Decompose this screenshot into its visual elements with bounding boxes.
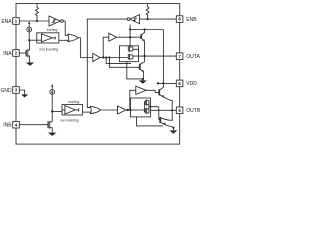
transistor Q5 (output B high side) [158, 89, 161, 95]
wire ENB horizontal [140, 18, 177, 20]
svg-text:INA: INA [3, 51, 12, 57]
wire U2 out [100, 57, 128, 59]
svg-text:inverting: inverting [68, 100, 79, 104]
wire select box B to gate [82, 111, 91, 113]
or-gate G1 (channel A) [68, 34, 78, 41]
wire INA horizontal [19, 52, 26, 54]
wire G2 out [101, 109, 118, 111]
svg-text:OUTA: OUTA [186, 54, 200, 60]
resistor R1 (ENA pull-up) [36, 4, 39, 22]
ground (GND pin) [21, 94, 28, 97]
wire select box A to gate [59, 39, 69, 41]
buffer U5 [117, 106, 126, 114]
pin OUTA [176, 53, 183, 60]
ground (stage A) [142, 79, 144, 80]
node OUTB [171, 109, 173, 111]
svg-text:GND: GND [0, 88, 12, 94]
node U2c [108, 56, 110, 58]
current source I2 [51, 86, 53, 89]
wire OUTB [151, 109, 177, 111]
pin VDD [176, 80, 183, 87]
pre-driver B gate rail [137, 101, 145, 112]
svg-text:inverting: inverting [47, 28, 58, 32]
wire I1 to Q1 drain [28, 32, 30, 50]
node pre-driver B entry [144, 109, 146, 111]
pre-driver mosfet B2 [145, 108, 149, 114]
buffer U2 [93, 53, 100, 61]
buffer in select box B [62, 106, 79, 114]
wire node A to select box [29, 39, 38, 41]
node U5b [129, 109, 131, 111]
wire INB horizontal [19, 124, 48, 126]
wire Q4 source [51, 128, 53, 133]
node VDD a [157, 82, 159, 84]
node pre-driver B out [150, 106, 152, 108]
buffer U3 [109, 33, 117, 41]
node A input [28, 39, 30, 41]
pre-driver box B [131, 98, 151, 117]
pre-driver mosfet A1 [128, 46, 138, 52]
pin GND [13, 87, 20, 94]
pre-driver box A [120, 46, 139, 62]
buffer in select box A [37, 34, 55, 42]
svg-text:OUTB: OUTB [186, 108, 200, 114]
ground (stage B) [169, 130, 177, 133]
wire I2 to Q4 drain [51, 94, 53, 122]
svg-text:ENA: ENA [1, 19, 12, 25]
buffer U6 [136, 86, 146, 94]
pre-driver mosfet A2 [128, 54, 133, 60]
vdd stub A into pre-driver [129, 25, 131, 46]
node rail A [129, 28, 131, 30]
IC boundary [16, 4, 180, 145]
svg-text:INB: INB [3, 123, 12, 129]
wire node B to select box [52, 111, 62, 113]
node U2b [105, 56, 107, 58]
transistor Q2 (output A high side) [140, 34, 143, 39]
node rail A2 [144, 28, 146, 30]
wire ENA horizontal [19, 20, 49, 22]
wire VDD [163, 82, 176, 84]
wire down to pre-driver A low rail [106, 58, 131, 64]
node ENB junction [147, 18, 149, 20]
wire GND pin [19, 90, 24, 94]
wire up to U3 [103, 37, 109, 57]
svg-text:VDD: VDD [186, 81, 197, 87]
wire Q1 source [28, 56, 30, 63]
node VDD b [162, 82, 164, 84]
vdd rail A [130, 30, 163, 84]
wire pre-driver A ground return [127, 62, 143, 79]
schmitt inverter U4 (ENB) [130, 15, 140, 24]
select box A [37, 33, 59, 43]
ground (INB stage) [48, 133, 56, 136]
wire down to Q3 gate [109, 58, 140, 68]
pin INB [13, 121, 20, 128]
wire U5 out [126, 109, 137, 111]
transistor Q6 (output B low side) [159, 117, 162, 123]
transistor Q1 (INA input nmos) [26, 49, 29, 58]
node B input [51, 110, 53, 112]
or-gate G2 (channel B) [90, 106, 100, 113]
transistor Q3 (output A low side) [138, 64, 141, 70]
ground (INA stage) [26, 63, 34, 66]
node U2a [102, 56, 104, 58]
select box B [62, 104, 82, 115]
schmitt inverter U1 (ENA) [49, 16, 61, 26]
pin INA [13, 50, 20, 57]
pin ENB [176, 16, 183, 23]
pin ENA [13, 18, 20, 25]
node Q6 emitter [172, 127, 174, 129]
current source I1 [28, 23, 30, 27]
node pre-driver A gate [129, 36, 131, 38]
wire pre-driver B ground return [137, 117, 164, 126]
wire U3 out to pre-driver A [116, 36, 141, 38]
wire U4 out to gate B [87, 19, 127, 107]
wire pre-driver B out [149, 103, 159, 111]
wire U1 out to gate A [63, 21, 68, 35]
svg-text:non inverting: non inverting [40, 47, 59, 51]
svg-text:non inverting: non inverting [60, 118, 79, 122]
pre-driver mosfet B1 [145, 100, 149, 106]
node ENA junction [36, 20, 38, 22]
wire G1 out [78, 38, 93, 58]
transistor Q4 (INB input nmos) [48, 121, 52, 129]
node stage A ground [142, 78, 144, 80]
svg-text:ENB: ENB [186, 17, 197, 23]
wire OUTA [133, 55, 176, 57]
node U5a [127, 109, 129, 111]
node OUTA [144, 55, 146, 57]
resistor R2 (ENB pull-up) [146, 4, 149, 20]
pin OUTB [176, 107, 183, 114]
wire Q6 gate [159, 107, 160, 120]
wire U6 out to Q5 gate [146, 90, 159, 92]
wire up to U6 [130, 90, 136, 110]
